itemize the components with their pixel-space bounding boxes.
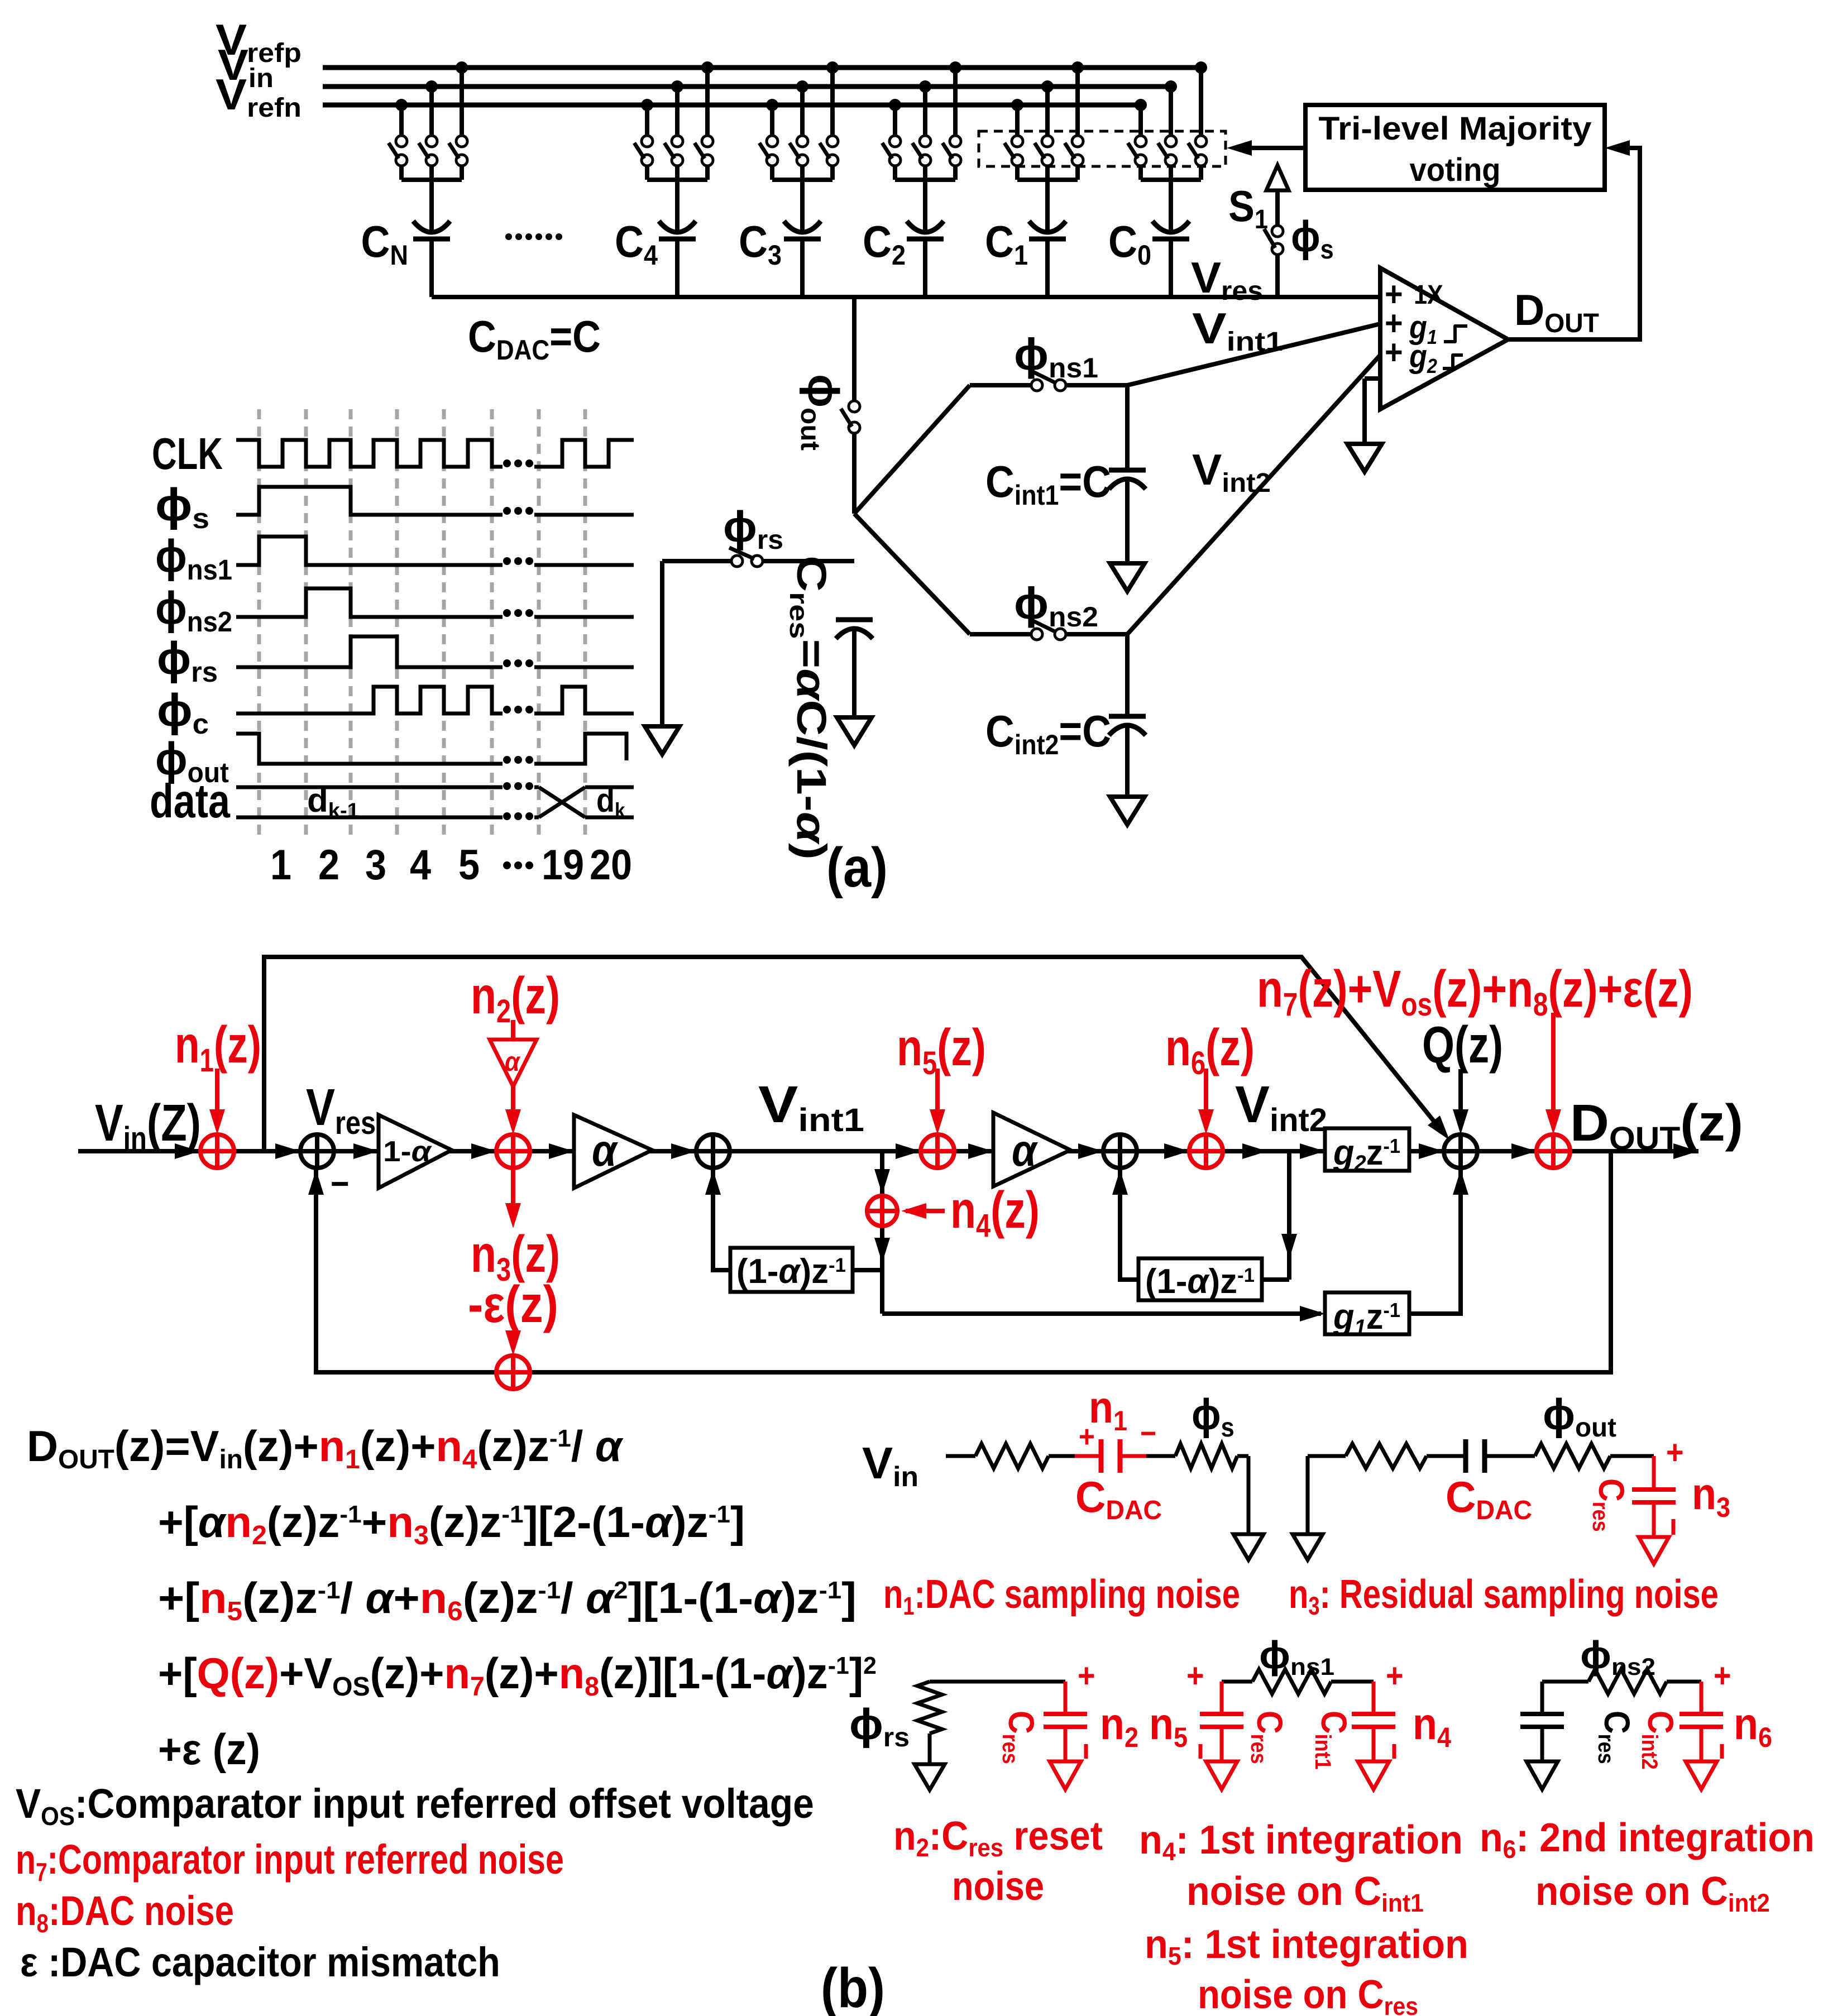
svg-text:n6​: 2nd integration: n6​: 2nd integration	[1480, 1815, 1815, 1864]
svg-text:n5​: 1st integration: n5​: 1st integration	[1145, 1921, 1468, 1970]
svg-text:(b): (b)	[821, 1957, 885, 2016]
svg-text:Tri-level Majority: Tri-level Majority	[1319, 111, 1592, 147]
svg-text:20: 20	[590, 842, 632, 889]
svg-text:+: +	[1386, 1657, 1404, 1694]
svg-text:−: −	[331, 1163, 350, 1203]
svg-text:2: 2	[318, 842, 339, 889]
svg-text:n7​(z)+Vos​(z)+n8​(z)+ε(z): n7​(z)+Vos​(z)+n8​(z)+ε(z)	[1257, 960, 1693, 1023]
svg-text:-ε(z): -ε(z)	[468, 1275, 558, 1333]
svg-text:+[n5​(z)z-1​/ α+n6​(z)z-1​/ α2: +[n5​(z)z-1​/ α+n6​(z)z-1​/ α2​][1-(1-α)…	[158, 1573, 857, 1626]
svg-text:+: +	[1186, 1657, 1204, 1694]
svg-text:data: data	[150, 774, 231, 828]
svg-text:α: α	[505, 1047, 520, 1077]
svg-text:+ε (z): +ε (z)	[158, 1726, 260, 1774]
svg-text:5: 5	[458, 842, 480, 889]
svg-text:1-α: 1-α	[383, 1135, 432, 1167]
svg-text:VOS​:Comparator input referred: VOS​:Comparator input referred offset vo…	[16, 1781, 814, 1831]
svg-text:n4​(z): n4​(z)	[950, 1180, 1040, 1244]
svg-text:n8​:DAC noise: n8​:DAC noise	[16, 1888, 234, 1938]
svg-text:noise: noise	[952, 1864, 1044, 1909]
svg-text:α: α	[592, 1126, 618, 1176]
svg-text:+: +	[1714, 1657, 1731, 1694]
svg-text:Vin​(Z): Vin​(Z)	[95, 1094, 201, 1157]
svg-text:n3​: Residual sampling noise: n3​: Residual sampling noise	[1289, 1572, 1719, 1620]
svg-text:−: −	[1140, 1417, 1156, 1451]
svg-text:1X: 1X	[1414, 280, 1443, 310]
svg-text:n2​(z): n2​(z)	[471, 966, 560, 1029]
svg-text:n1​(z): n1​(z)	[175, 1015, 261, 1079]
svg-text:+[Q(z)+VOS​(z)+n7​(z)+n8​(z)][: +[Q(z)+VOS​(z)+n7​(z)+n8​(z)][1-(1-α)z-1…	[158, 1649, 877, 1702]
svg-text:19: 19	[542, 842, 584, 889]
svg-text:CLK: CLK	[152, 429, 223, 479]
svg-text:n6​(z): n6​(z)	[1165, 1018, 1255, 1081]
svg-text:DOUT​(z)=Vin​(z)+n1​(z)+n4​(z): DOUT​(z)=Vin​(z)+n1​(z)+n4​(z)z-1​/ α	[27, 1423, 624, 1474]
svg-text:1: 1	[270, 842, 291, 889]
svg-text:+: +	[1666, 1434, 1684, 1471]
svg-text:+: +	[1385, 333, 1403, 371]
svg-text:ε :DAC capacitor mismatch: ε :DAC capacitor mismatch	[20, 1939, 500, 1985]
svg-text:Q(z): Q(z)	[1422, 1016, 1503, 1074]
svg-text:+: +	[1078, 1657, 1095, 1694]
svg-text:+[αn2​(z)z-1​+n3​(z)z-1​][2-(1: +[αn2​(z)z-1​+n3​(z)z-1​][2-(1-α)z-1​]	[158, 1497, 745, 1550]
svg-text:α: α	[1012, 1126, 1038, 1176]
svg-text:n7​:Comparator input referred: n7​:Comparator input referred noise	[16, 1837, 564, 1886]
svg-text:3: 3	[365, 842, 386, 889]
svg-text:voting: voting	[1410, 151, 1501, 188]
svg-text:n5​(z): n5​(z)	[897, 1018, 986, 1081]
svg-text:4: 4	[410, 842, 431, 889]
svg-text:(a): (a)	[826, 837, 888, 899]
svg-text:n1​:DAC sampling noise: n1​:DAC sampling noise	[883, 1572, 1240, 1620]
svg-text:n4​: 1st integration: n4​: 1st integration	[1139, 1817, 1463, 1866]
